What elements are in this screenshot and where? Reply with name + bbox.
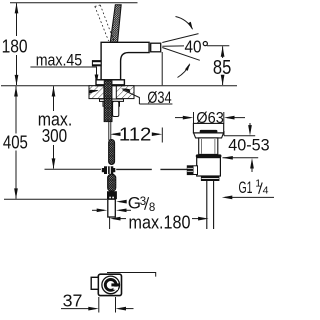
- svg-text:40-53: 40-53: [228, 136, 269, 155]
- svg-text:85: 85: [213, 57, 231, 79]
- svg-text:8: 8: [149, 202, 155, 214]
- svg-text:40: 40: [185, 36, 202, 56]
- svg-text:Ø63: Ø63: [196, 110, 224, 127]
- svg-text:max.45: max.45: [36, 51, 82, 70]
- svg-text:37: 37: [63, 291, 83, 311]
- svg-text:405: 405: [3, 131, 28, 152]
- svg-text:300: 300: [42, 126, 67, 146]
- svg-text:Ø34: Ø34: [147, 88, 171, 107]
- svg-text:max.180: max.180: [129, 211, 191, 232]
- svg-text:G1: G1: [239, 178, 253, 197]
- svg-text:180: 180: [2, 36, 28, 57]
- svg-text:4: 4: [263, 185, 269, 197]
- svg-text:112: 112: [119, 124, 151, 145]
